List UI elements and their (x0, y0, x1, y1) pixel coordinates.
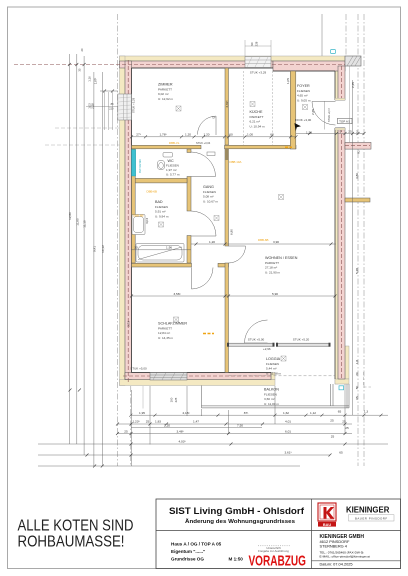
symbol loggia (281, 356, 286, 361)
glass frame posts (227, 343, 331, 347)
door arc A5 schlafzimmer (192, 268, 214, 290)
kitchen counter dashed lines (243, 71, 245, 145)
kieninger logo K box (318, 503, 336, 527)
svg-text:4,86: 4,86 (355, 173, 359, 179)
svg-text:20: 20 (80, 48, 84, 51)
exterior wall insulation right bottom cap (335, 379, 349, 384)
room label wohnen essen (265, 256, 298, 275)
window top wall (245, 57, 271, 68)
svg-text:KIENINGER: KIENINGER (346, 505, 390, 514)
svg-text:1,20: 1,20 (185, 133, 191, 137)
svg-text:U: 10,67 m: U: 10,67 m (203, 200, 219, 204)
svg-text:4,03¹: 4,03¹ (178, 440, 185, 444)
svg-text:3,60 m²: 3,60 m² (264, 397, 275, 401)
svg-text:3,79: 3,79 (126, 321, 130, 327)
room symbol helper: crossed squares (159, 102, 308, 362)
interior wall W5 segment right (218, 263, 229, 267)
cyan symbol balcony right (339, 386, 344, 390)
svg-text:6,01: 6,01 (285, 429, 291, 433)
dim row y296 (132, 295, 337, 297)
kieninger logo subtitle box (349, 515, 395, 521)
signature small texts (258, 546, 289, 553)
svg-text:BAD: BAD (155, 200, 163, 204)
svg-text:LOGGIA: LOGGIA (266, 357, 281, 361)
title block horizontal divider (156, 530, 401, 532)
svg-text:30: 30 (134, 246, 138, 250)
svg-text:7,50: 7,50 (237, 423, 243, 427)
svg-text:STERNBERG 4: STERNBERG 4 (320, 543, 348, 548)
door arc A1 zimmer (198, 116, 217, 135)
ticks on left dim chains (68, 63, 114, 468)
svg-text:27¹: 27¹ (136, 133, 140, 137)
balcony outline right b (332, 384, 334, 406)
wc basin (163, 153, 173, 158)
svg-text:1,20: 1,20 (203, 133, 209, 137)
svg-text:65: 65 (339, 450, 343, 454)
svg-text:3,48¹: 3,48¹ (176, 429, 183, 433)
neighbor balcony dashed corner (364, 372, 372, 387)
svg-text:80: 80 (355, 386, 359, 390)
svg-text:DBB-6B: DBB-6B (133, 214, 144, 218)
svg-text:FOYER: FOYER (297, 84, 310, 88)
dim row y244 (191, 243, 336, 245)
svg-text:STUK +3,29: STUK +3,29 (250, 71, 267, 75)
dim texts bottom rows (124, 410, 368, 455)
glass front loggia left segment (229, 343, 274, 346)
dim row y455 (38, 454, 330, 456)
concrete block top right hatched (345, 56, 361, 66)
wall junction dark patch (225, 149, 228, 160)
svg-text:2,20: 2,20 (164, 423, 170, 427)
dimension lines group (38, 54, 388, 466)
svg-text:PARKETT: PARKETT (158, 327, 172, 331)
svg-text:PARKETT: PARKETT (265, 261, 279, 265)
svg-text:3,61¹: 3,61¹ (284, 451, 291, 455)
svg-text:2,25: 2,25 (311, 109, 315, 115)
svg-text:U: 15,58 m: U: 15,58 m (266, 372, 282, 376)
svg-text:5,91 m²: 5,91 m² (155, 210, 166, 214)
svg-text:10,12: 10,12 (101, 245, 105, 253)
dim row y433.5 (117, 433, 352, 435)
svg-text:4,65 m²: 4,65 m² (297, 94, 308, 98)
svg-text:FLIESEN: FLIESEN (155, 205, 168, 209)
dashed extension line left y145 (45, 144, 120, 146)
symbol bad (159, 222, 164, 227)
svg-text:220: 220 (109, 107, 114, 111)
svg-text:1,8: 1,8 (355, 360, 359, 365)
svg-text:60: 60 (229, 133, 233, 137)
svg-text:9: 9 (340, 129, 342, 133)
orange dbb labels (133, 141, 269, 242)
balcony outline right a (330, 384, 332, 406)
svg-text:87¹: 87¹ (244, 411, 248, 415)
svg-text:1,47: 1,47 (193, 420, 199, 424)
svg-text:ZIMMER: ZIMMER (158, 83, 173, 87)
door arc A3 wc (191, 152, 216, 177)
svg-text:FLIESEN: FLIESEN (297, 89, 310, 93)
svg-text:2,82¹: 2,82¹ (225, 100, 229, 107)
interior wall W2 segment left (132, 145, 202, 149)
svg-text:6,90: 6,90 (229, 229, 233, 235)
window bottom wall (150, 373, 187, 381)
interior wall W1 zimmer-kueche (225, 68, 229, 145)
top a5 label box (338, 118, 353, 123)
svg-text:U: 11,00 m: U: 11,00 m (264, 402, 279, 406)
svg-text:1,00: 1,00 (247, 133, 253, 137)
interior wall W9 stub right of wall (345, 198, 370, 202)
svg-text:ROHBAUMASSE!: ROHBAUMASSE! (18, 534, 125, 551)
svg-text:25: 25 (345, 426, 349, 430)
svg-text:100: 100 (169, 397, 173, 402)
exterior wall insulation right upper (335, 66, 338, 100)
svg-text:Datum: 07.04.2025: Datum: 07.04.2025 (320, 562, 353, 567)
room label zimmer (158, 83, 174, 102)
svg-text:9,41: 9,41 (92, 246, 96, 252)
exterior wall insulation bottom (120, 380, 276, 386)
grid line vertical top right short (345, 14, 347, 60)
svg-text:WC: WC (168, 159, 174, 163)
loggia dashed edge (229, 375, 336, 377)
cyan symbol above top wall (331, 50, 336, 54)
svg-text:STUK +5,00: STUK +5,00 (130, 367, 147, 371)
signature dotted line (258, 545, 290, 547)
dim texts row y244 y296 (134, 240, 279, 296)
balcony extension line thin (142, 386, 144, 409)
svg-text:1,97 m²: 1,97 m² (166, 168, 177, 172)
svg-text:9,02 m²: 9,02 m² (158, 92, 169, 96)
svg-text:DBB-6B: DBB-6B (147, 190, 158, 194)
svg-text:228: 228 (255, 41, 259, 46)
title left info lines (171, 542, 243, 562)
svg-text:1,20: 1,20 (209, 240, 215, 244)
svg-text:WOHNEN / ESSEN: WOHNEN / ESSEN (265, 256, 298, 260)
rotated dim texts interior (126, 41, 314, 402)
party wall stub right (345, 142, 371, 149)
room label balkon (264, 388, 279, 407)
orange dash marks (203, 147, 292, 333)
svg-text:1,16: 1,16 (87, 76, 91, 82)
entry arrow symbol (295, 123, 302, 131)
wall axis dashed top (14, 64, 345, 66)
extension verticals bottom (131, 390, 133, 466)
svg-text:Änderung des Wohnungsgrundriss: Änderung des Wohnungsgrundrisses (185, 518, 295, 525)
svg-text:BAU: BAU (323, 523, 331, 527)
exterior brick wall bottom (125, 373, 271, 380)
room label foyer (297, 84, 311, 103)
svg-text:1,58: 1,58 (306, 130, 312, 134)
symbol kueche (250, 102, 255, 107)
svg-text:25: 25 (330, 418, 334, 422)
shower teal strip (132, 150, 136, 177)
wall inner face lines (132, 68, 346, 379)
svg-text:25: 25 (331, 435, 335, 439)
title block frame (156, 499, 401, 569)
svg-text:25: 25 (146, 420, 150, 424)
svg-text:25: 25 (124, 429, 128, 433)
svg-text:25: 25 (342, 420, 346, 424)
small dim verticals top left (104, 92, 106, 130)
svg-text:4,01: 4,01 (285, 420, 291, 424)
svg-text:BALKON: BALKON (264, 388, 279, 392)
svg-text:5,28: 5,28 (355, 268, 359, 274)
svg-text:SCHLAFZIMMER: SCHLAFZIMMER (158, 322, 187, 326)
svg-text:U: 21,90 m: U: 21,90 m (265, 271, 281, 275)
right dim vertical (352, 80, 354, 415)
room label schlafzimmer (158, 322, 187, 341)
interior wall W2 segment right (225, 145, 297, 149)
room label wc (166, 159, 180, 177)
svg-text:1,78¹: 1,78¹ (159, 133, 166, 137)
svg-text:FFOK +3,00: FFOK +3,00 (295, 118, 312, 122)
svg-text:E-MAIL: office-pinsdorf@kien: E-MAIL: office-pinsdorf@kieninger.at (320, 555, 371, 559)
room label bad (155, 200, 169, 219)
exterior brick wall right below door (338, 128, 345, 379)
exterior wall insulation right inner strip at loggia (345, 346, 349, 379)
small dim line left top (100, 90, 118, 92)
grid line vertical right A (357, 14, 359, 466)
svg-text:1,12: 1,12 (310, 411, 316, 415)
interior wall W5 segment left (132, 263, 192, 267)
svg-text:PARKETT: PARKETT (158, 88, 172, 92)
svg-text:STUK +5,00: STUK +5,00 (248, 338, 265, 342)
room label loggia (266, 357, 282, 376)
wall axis dashed bottom (123, 375, 272, 377)
svg-text:20: 20 (355, 372, 359, 376)
svg-text:STUK +5,20: STUK +5,20 (293, 338, 310, 342)
dim row y424 (117, 423, 352, 425)
wall axis dashed left (127, 60, 129, 382)
glass front loggia right segment (277, 343, 329, 346)
symbol schlafzimmer (174, 317, 179, 322)
rotated dim texts left (68, 48, 105, 253)
svg-text:FLIESEN: FLIESEN (203, 190, 216, 194)
svg-text:STUK +3,29: STUK +3,29 (131, 97, 135, 113)
svg-text:TOP A 5: TOP A 5 (339, 120, 350, 124)
svg-text:1,05: 1,05 (286, 78, 290, 84)
dim row interior y136.8 (132, 136, 297, 138)
dim row y415.2 (131, 414, 388, 416)
interior wall W8 furring left (132, 149, 136, 263)
svg-text:1,62: 1,62 (283, 411, 289, 415)
svg-text:U: 5,77 m: U: 5,77 m (166, 173, 180, 177)
svg-text:U: 9,05 m: U: 9,05 m (297, 99, 311, 103)
dim row y249.8 bad (132, 249, 192, 251)
stuk level texts (130, 71, 311, 371)
corridor edge line right of entry (349, 66, 351, 142)
svg-text:FLIESEN: FLIESEN (166, 164, 179, 168)
symbol wohnen (279, 195, 284, 200)
door arc A6 gang-wohnen (229, 246, 246, 263)
room label kueche (250, 110, 266, 129)
svg-text:60: 60 (270, 133, 274, 137)
svg-text:STUK +3,17: STUK +3,17 (327, 107, 331, 122)
door arc A4 bad (191, 211, 216, 236)
svg-text:BW 90/190: BW 90/190 (138, 159, 142, 173)
symbol foyer (303, 105, 308, 110)
exterior brick wall right above door (338, 66, 345, 100)
interior wall W7 kueche-foyer (290, 71, 296, 149)
svg-text:U: 12,62 m: U: 12,62 m (158, 97, 174, 101)
svg-text:3,58¹: 3,58¹ (173, 292, 180, 296)
svg-text:1,83: 1,83 (155, 420, 161, 424)
svg-text:Eigentum "......": Eigentum "......" (171, 549, 205, 554)
svg-text:12,84 m²: 12,84 m² (158, 331, 170, 335)
exterior wall insulation top (120, 56, 346, 61)
svg-text:U: 9,94 m: U: 9,94 m (155, 215, 169, 219)
svg-text:3,90: 3,90 (273, 240, 279, 244)
svg-text:KÜCHE: KÜCHE (250, 110, 263, 114)
left dim verticals (68, 54, 70, 444)
svg-text:Grundrisse OG: Grundrisse OG (171, 557, 204, 562)
svg-text:FLIESEN: FLIESEN (266, 362, 279, 366)
title block vertical divider (311, 499, 313, 569)
symbol zimmer (176, 106, 181, 111)
svg-text:U: 10,94 m: U: 10,94 m (250, 125, 266, 129)
svg-text:25: 25 (348, 129, 352, 133)
exterior wall insulation right lower (335, 128, 338, 384)
interior wall W3 segment a (187, 149, 191, 153)
svg-text:12,80: 12,80 (68, 212, 72, 220)
svg-text:DBB 10A: DBB 10A (230, 160, 242, 164)
svg-text:2: 2 (356, 129, 358, 133)
svg-text:2,28: 2,28 (91, 103, 95, 109)
svg-text:DBB-VL: DBB-VL (169, 141, 180, 145)
wc toilet (158, 161, 165, 170)
interior wall W6 upper (225, 149, 229, 246)
svg-text:1,87¹: 1,87¹ (94, 78, 98, 84)
bathtub (136, 244, 184, 263)
balcony outline bottom double (202, 405, 350, 407)
svg-text:SIST Living GmbH - Ohlsdorf: SIST Living GmbH - Ohlsdorf (169, 506, 305, 517)
svg-text:1,23¹: 1,23¹ (132, 420, 139, 424)
title block right divider lower (312, 560, 401, 562)
interior wall W4 wc-bad divider (135, 178, 187, 183)
svg-text:82: 82 (357, 150, 361, 154)
svg-text:90: 90 (250, 42, 254, 46)
svg-text:U: 14,35 m: U: 14,35 m (158, 336, 174, 340)
interior wall W3 segment c (187, 236, 191, 264)
section line vertical top (321, 14, 323, 56)
interior wall W3 segment b (187, 177, 191, 212)
exterior wall insulation bottom right wrap (271, 373, 275, 380)
svg-text:Haus A / OG / TOP A 05: Haus A / OG / TOP A 05 (171, 542, 222, 547)
svg-text:11,10: 11,10 (83, 220, 87, 228)
svg-text:2,25: 2,25 (351, 82, 355, 88)
svg-text:72¹: 72¹ (212, 116, 216, 120)
balcony outline far right a (346, 384, 348, 408)
svg-text:ALLE KOTEN SIND: ALLE KOTEN SIND (18, 518, 134, 535)
company address block (320, 534, 371, 559)
svg-text:PARKETT: PARKETT (250, 115, 264, 119)
dashed extension line left y128 (55, 127, 120, 129)
svg-text:+2,96: +2,96 (263, 347, 271, 351)
balcony outline far right b (348, 384, 350, 408)
symbol gang (214, 216, 219, 221)
wall axis dashed right (341, 66, 343, 100)
svg-text:2,18¹: 2,18¹ (182, 411, 189, 415)
svg-text:STUK +3,04: STUK +3,04 (196, 141, 211, 145)
exterior brick wall left (125, 61, 132, 380)
door arc A2 entry foyer (312, 101, 336, 130)
dim row foyer y133.5 (296, 133, 364, 135)
svg-text:5,08 m²: 5,08 m² (203, 195, 214, 199)
exterior wall insulation left (120, 56, 126, 386)
dim texts row y136 (136, 129, 358, 136)
svg-text:65: 65 (338, 410, 342, 414)
grid line vertical right B (363, 14, 365, 466)
svg-text:BAUER PINSDORF: BAUER PINSDORF (355, 516, 388, 520)
svg-text:27,18 m²: 27,18 m² (265, 266, 277, 270)
svg-text:VORABZUG: VORABZUG (248, 553, 306, 570)
gang small fixture (207, 152, 215, 156)
grid line vertical left (117, 14, 119, 466)
dim row y427.5 (131, 427, 262, 429)
room label gang (203, 185, 219, 204)
svg-text:DBB-6B: DBB-6B (258, 238, 269, 242)
svg-text:11,60: 11,60 (75, 218, 79, 226)
svg-text:5,90: 5,90 (272, 292, 278, 296)
svg-text:65: 65 (355, 396, 359, 400)
interior wall W6 lower (225, 263, 229, 373)
svg-text:1,95: 1,95 (139, 411, 145, 415)
svg-text:1,3: 1,3 (364, 410, 369, 414)
svg-text:225: 225 (174, 397, 178, 402)
svg-text:5,44 m²: 5,44 m² (266, 367, 277, 371)
exterior brick wall top segment A (120, 61, 274, 68)
window extension lines above top wall (244, 40, 246, 56)
dim row y444 (38, 443, 388, 445)
exterior brick wall top segment B (273, 61, 345, 71)
rotated dim texts right (351, 82, 361, 400)
window left wall (86, 94, 132, 120)
svg-text:GANG: GANG (203, 185, 214, 189)
door arc A7 loggia (245, 320, 268, 343)
wall axis dashed party stub (345, 145, 370, 147)
dim row y466 (38, 465, 300, 467)
entry door jamb caps (335, 98, 345, 100)
dimension tick marks (116, 132, 383, 457)
svg-text:6,21 m²: 6,21 m² (250, 120, 261, 124)
svg-text:1,96: 1,96 (166, 246, 172, 250)
balcony outline left (201, 386, 203, 408)
bad vanity (132, 215, 145, 235)
grid line vertical below building (130, 386, 132, 466)
svg-text:M 1:50: M 1:50 (229, 557, 244, 562)
svg-text:3,03: 3,03 (145, 218, 149, 224)
svg-text:35: 35 (78, 68, 82, 71)
